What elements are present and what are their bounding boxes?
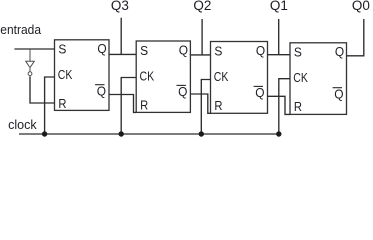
svg-text:Q: Q xyxy=(179,42,188,57)
svg-text:Q0: Q0 xyxy=(352,0,370,13)
svg-text:R: R xyxy=(294,99,302,114)
svg-text:Q: Q xyxy=(256,43,265,58)
svg-text:R: R xyxy=(58,96,66,111)
svg-text:Q: Q xyxy=(97,41,106,56)
svg-text:Q: Q xyxy=(335,44,344,59)
svg-text:R: R xyxy=(140,97,148,112)
svg-text:CK: CK xyxy=(214,69,229,84)
svg-text:R: R xyxy=(214,98,222,113)
svg-text:S: S xyxy=(294,45,302,60)
svg-text:Q1: Q1 xyxy=(270,0,288,13)
svg-text:Q: Q xyxy=(334,86,343,101)
svg-text:clock: clock xyxy=(8,117,37,132)
svg-text:Q: Q xyxy=(255,85,264,100)
svg-text:CK: CK xyxy=(58,67,73,82)
svg-text:Q2: Q2 xyxy=(193,0,211,13)
svg-text:Q: Q xyxy=(178,84,187,99)
svg-text:CK: CK xyxy=(140,68,155,83)
svg-text:Q3: Q3 xyxy=(111,0,129,13)
svg-text:S: S xyxy=(58,42,66,57)
svg-text:CK: CK xyxy=(293,70,308,85)
svg-text:S: S xyxy=(214,43,222,58)
svg-text:entrada: entrada xyxy=(0,22,41,37)
svg-text:Q: Q xyxy=(97,83,106,98)
svg-text:S: S xyxy=(140,43,148,58)
